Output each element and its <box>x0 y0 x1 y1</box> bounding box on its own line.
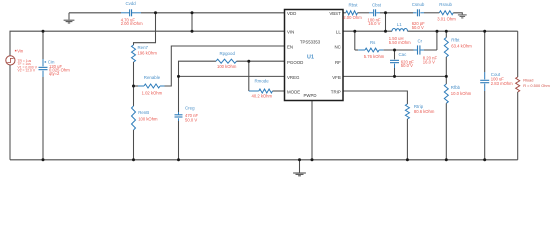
svg-text:TRIP: TRIP <box>331 90 341 95</box>
svg-text:V2 = 12.0 V: V2 = 12.0 V <box>18 69 36 73</box>
svg-text:50.0 V: 50.0 V <box>412 25 424 30</box>
svg-text:Ren7: Ren7 <box>138 45 149 50</box>
svg-text:50.0 V: 50.0 V <box>401 63 413 68</box>
svg-text:50.0 V: 50.0 V <box>185 117 197 122</box>
svg-text:MODE: MODE <box>287 90 300 95</box>
svg-text:VDD: VDD <box>287 11 296 16</box>
svg-text:Rsnub: Rsnub <box>439 2 452 7</box>
svg-text:2.83 mOhm: 2.83 mOhm <box>491 81 513 86</box>
svg-text:2.00 mOhm: 2.00 mOhm <box>121 21 143 26</box>
svg-text:R = 0.500 Ohm: R = 0.500 Ohm <box>523 83 550 88</box>
svg-text:80.6 kOhm: 80.6 kOhm <box>414 109 435 114</box>
svg-text:100 kOhm: 100 kOhm <box>138 116 158 121</box>
svg-text:U1: U1 <box>307 54 314 60</box>
svg-text:PGOOD: PGOOD <box>287 60 303 65</box>
svg-text:3.01 Ohm: 3.01 Ohm <box>437 17 456 22</box>
svg-text:Rload: Rload <box>523 77 533 82</box>
svg-text:Rmode: Rmode <box>255 79 270 84</box>
svg-text:PWPD: PWPD <box>304 93 317 98</box>
svg-text:LL: LL <box>336 30 341 35</box>
svg-text:TPS53353: TPS53353 <box>300 39 321 44</box>
svg-text:Creg: Creg <box>185 106 195 111</box>
svg-text:1.02 kOhm: 1.02 kOhm <box>142 91 163 96</box>
svg-text:RenB: RenB <box>138 110 149 115</box>
svg-text:10.0 kOhm: 10.0 kOhm <box>451 91 472 96</box>
svg-text:Rbst: Rbst <box>349 3 359 8</box>
svg-text:Rpgood: Rpgood <box>220 51 236 56</box>
svg-text:EN: EN <box>287 45 293 50</box>
svg-text:RF: RF <box>335 60 341 65</box>
svg-text:qty=2: qty=2 <box>49 71 60 76</box>
svg-text:40.2 kOhm: 40.2 kOhm <box>252 94 273 99</box>
svg-text:Rs: Rs <box>370 40 376 45</box>
svg-text:5.76 kOhm: 5.76 kOhm <box>364 54 385 59</box>
svg-text:NC: NC <box>334 45 340 50</box>
svg-text:VBST: VBST <box>329 11 341 16</box>
svg-text:2.00 Ohm: 2.00 Ohm <box>343 15 362 20</box>
svg-text:L1: L1 <box>397 22 402 27</box>
svg-text:Cac: Cac <box>399 52 408 57</box>
svg-text:Vin: Vin <box>17 49 24 54</box>
svg-text:VFB: VFB <box>332 75 341 80</box>
svg-text:100 kOhm: 100 kOhm <box>217 64 237 69</box>
svg-text:16.0 V: 16.0 V <box>368 21 380 26</box>
svg-text:Cr: Cr <box>418 38 423 43</box>
svg-text:Cbst: Cbst <box>372 3 382 8</box>
svg-text:196 kOhm: 196 kOhm <box>138 51 158 56</box>
svg-text:Cvdd: Cvdd <box>126 1 137 6</box>
svg-text:VIN: VIN <box>287 30 294 35</box>
svg-text:63.4 kOhm: 63.4 kOhm <box>451 43 472 48</box>
svg-text:Rfbb: Rfbb <box>451 85 461 90</box>
svg-text:Renable: Renable <box>144 75 161 80</box>
svg-text:VREG: VREG <box>287 75 300 80</box>
svg-text:16.0 V: 16.0 V <box>423 59 435 64</box>
svg-text:5.50 mOhm: 5.50 mOhm <box>389 40 411 45</box>
svg-text:Rfbt: Rfbt <box>451 38 460 43</box>
svg-text:Csnub: Csnub <box>412 2 425 7</box>
